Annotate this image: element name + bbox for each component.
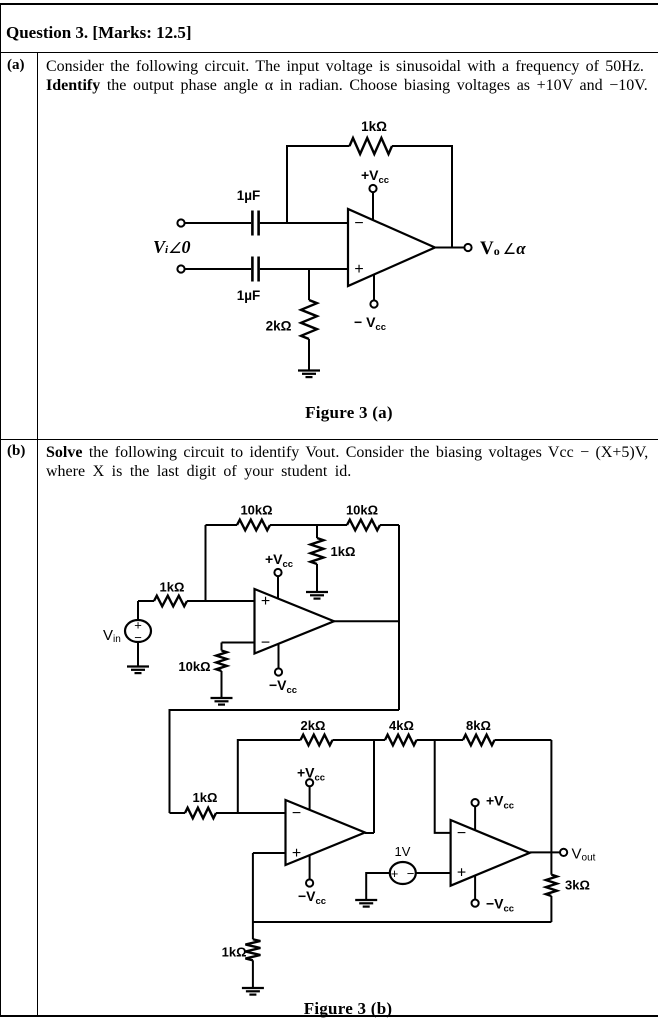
svg-text:Vo ∠α: Vo ∠α (480, 238, 526, 259)
svg-text:−Vcc: −Vcc (486, 896, 514, 915)
svg-text:−Vcc: −Vcc (298, 888, 326, 907)
svg-text:10kΩ: 10kΩ (240, 503, 272, 518)
svg-text:+Vcc: +Vcc (265, 551, 293, 570)
svg-text:1µF: 1µF (237, 188, 261, 203)
svg-text:2kΩ: 2kΩ (266, 319, 292, 334)
svg-text:−: − (261, 635, 270, 652)
svg-text:−: − (292, 805, 301, 822)
svg-text:+: + (292, 845, 301, 862)
svg-text:+: + (261, 593, 270, 610)
svg-text:+Vcc: +Vcc (486, 793, 514, 812)
svg-text:10kΩ: 10kΩ (178, 659, 210, 674)
svg-text:+: + (354, 261, 363, 278)
svg-text:+: + (457, 865, 466, 882)
svg-text:1V: 1V (395, 844, 411, 859)
svg-text:−: − (354, 215, 363, 232)
svg-text:Vin: Vin (103, 627, 121, 645)
svg-text:2kΩ: 2kΩ (301, 718, 326, 733)
svg-text:Vout: Vout (572, 846, 596, 864)
svg-text:8kΩ: 8kΩ (466, 718, 491, 733)
svg-text:1kΩ: 1kΩ (361, 119, 387, 134)
svg-text:+Vcc: +Vcc (297, 765, 325, 784)
svg-text:+Vcc: +Vcc (361, 167, 389, 186)
svg-text:4kΩ: 4kΩ (389, 718, 414, 733)
svg-text:1kΩ: 1kΩ (331, 544, 356, 559)
svg-text:Vi∠0: Vi∠0 (153, 237, 191, 257)
svg-text:−: − (457, 825, 466, 842)
svg-text:+: + (391, 866, 399, 881)
svg-text:− Vcc: − Vcc (354, 314, 386, 333)
svg-text:1kΩ: 1kΩ (222, 945, 247, 960)
svg-text:1kΩ: 1kΩ (160, 580, 185, 595)
svg-text:1µF: 1µF (237, 288, 261, 303)
svg-text:3kΩ: 3kΩ (565, 878, 590, 893)
svg-text:1kΩ: 1kΩ (193, 790, 218, 805)
svg-text:10kΩ: 10kΩ (346, 503, 378, 518)
svg-text:−Vcc: −Vcc (269, 677, 297, 696)
svg-text:−: − (407, 866, 415, 881)
